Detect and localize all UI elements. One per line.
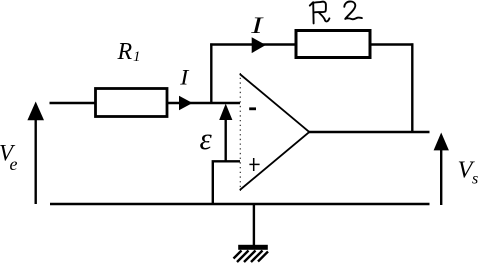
- svg-text:e: e: [10, 154, 18, 174]
- ground: [234, 204, 269, 262]
- svg-text:1: 1: [133, 49, 141, 65]
- op-amp U1: [240, 73, 309, 191]
- label Vs: [458, 157, 479, 188]
- wire top feedback to R2: [210, 43, 295, 45]
- current arrow I (input): [179, 96, 193, 110]
- svg-text:s: s: [472, 171, 478, 188]
- wire R1 to inverting node: [167, 102, 240, 104]
- svg-text:I: I: [179, 65, 189, 90]
- label R1: [117, 39, 141, 65]
- output wire: [309, 131, 430, 133]
- epsilon arrow: [219, 104, 232, 161]
- svg-text:I: I: [250, 13, 264, 39]
- op-amp minus sign: [249, 107, 256, 110]
- voltage arrow Ve: [27, 102, 44, 205]
- resistor R1: [96, 89, 168, 117]
- wire input to R1: [50, 102, 97, 104]
- voltage arrow Vs: [434, 133, 449, 206]
- wire plus input step: [213, 161, 240, 204]
- svg-text:R: R: [117, 39, 133, 65]
- current arrow I (feedback): [252, 37, 266, 53]
- wire R2 to right corner: [370, 43, 413, 45]
- svg-text:ε: ε: [200, 121, 213, 156]
- wire right vertical down to output: [411, 43, 413, 132]
- label R2 (handwritten): [310, 1, 362, 23]
- bottom rail wire: [50, 203, 430, 205]
- label Ve: [0, 140, 18, 174]
- wire feedback vertical tap: [210, 43, 212, 104]
- resistor R2: [296, 31, 370, 58]
- op-amp plus sign: [249, 158, 259, 171]
